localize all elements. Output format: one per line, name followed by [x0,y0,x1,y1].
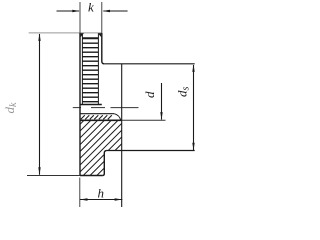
thread chamfer diagonal [114,114,121,121]
bottom edge thick [80,175,103,177]
hole line thick [80,119,122,121]
under-knurl line [80,104,102,106]
head top edge (gray) [29,32,102,34]
svg-text:k: k [88,0,94,15]
k left extension [79,2,81,33]
dim ds line [193,65,195,150]
d arrow down [160,112,162,120]
head right face [102,33,105,64]
k right extension [101,2,103,33]
label d [142,91,157,98]
dim h line [80,199,123,201]
label dk [2,102,19,114]
boss end face + h extension [121,64,123,207]
boss-head fillet bottom + lower right face + corner round [103,150,107,175]
knurl chamfer triangle right [98,33,101,37]
bottom edge dk extension (thin) [27,175,80,177]
h arrow right [115,198,123,200]
boss bottom silhouette + ds extension [107,150,195,152]
dk arrow up [38,33,40,41]
head left face [79,33,81,176]
thread band top line [80,113,114,115]
dim k arrow left [57,10,80,12]
label ds [175,87,192,98]
knurl chamfer edge right [97,33,99,104]
ds arrow down [192,143,194,151]
svg-text:h: h [98,186,105,201]
hole line extension for d [122,119,166,121]
dk arrow down [38,167,40,175]
h ext left [79,178,81,208]
knurl chamfer triangle left [81,33,84,37]
node axis centerline [73,107,139,109]
dim d line [161,83,163,120]
h arrow left [80,198,88,200]
knurl chamfer edge left [81,33,83,104]
svg-text:d: d [142,91,157,98]
thread band dashes [81,115,112,119]
ds arrow up [192,64,194,72]
boss top silhouette + ds extension [104,63,194,65]
dim dk line [39,34,41,175]
dim k arrow right [102,10,127,12]
knurl rungs [82,38,98,101]
